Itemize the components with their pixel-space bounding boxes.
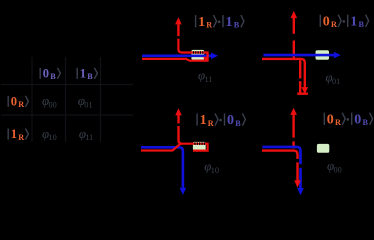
TL red input and wrap path bbox=[142, 39, 208, 61]
TR red dashed return vertical bbox=[299, 60, 301, 78]
svg-text:B: B bbox=[50, 72, 56, 81]
svg-text:0: 0 bbox=[354, 113, 361, 128]
TR red up output arrow bbox=[291, 11, 298, 18]
BL blue down output arrow bbox=[180, 188, 187, 195]
BR blue beam turning down bbox=[262, 147, 300, 164]
BL blue beam turning down bbox=[141, 147, 183, 188]
svg-text:1: 1 bbox=[200, 113, 207, 128]
BL title |1_R>.|0_B> bbox=[196, 113, 198, 125]
BR blue down output arrow bbox=[297, 188, 304, 195]
svg-text:B: B bbox=[87, 72, 93, 81]
TL title |1_R>.|1_B> bbox=[195, 15, 197, 27]
svg-text:B: B bbox=[234, 21, 240, 30]
svg-text:0: 0 bbox=[227, 113, 234, 128]
BL red up output arrow bbox=[175, 108, 182, 115]
svg-text:R: R bbox=[18, 133, 24, 142]
svg-text:B: B bbox=[363, 118, 369, 127]
TL grating ticks bbox=[193, 51, 194, 54]
svg-text:R: R bbox=[206, 21, 212, 30]
TR title |0_R>.|1_B> bbox=[319, 15, 321, 27]
BR red dashed up vertical bbox=[292, 141, 294, 148]
svg-text:00: 00 bbox=[49, 100, 57, 109]
svg-text:R: R bbox=[18, 100, 24, 109]
svg-text:1: 1 bbox=[198, 15, 205, 30]
svg-text:1: 1 bbox=[11, 127, 17, 141]
BR title |0_R>.|0_B> bbox=[323, 113, 325, 125]
TR red input turning down bbox=[262, 59, 305, 89]
TL component grating bbox=[191, 50, 204, 60]
table header ket |0_B> bbox=[39, 68, 41, 79]
TR blue output arrow bbox=[334, 52, 341, 59]
svg-text:10: 10 bbox=[211, 166, 219, 175]
TR red mirror foot bbox=[297, 92, 308, 94]
TR component bbox=[316, 50, 330, 60]
svg-text:0: 0 bbox=[11, 95, 17, 109]
table header ket |1_B> bbox=[76, 68, 78, 79]
TL red dash segment bbox=[177, 24, 179, 36]
svg-text:B: B bbox=[235, 119, 241, 128]
table grid lines bbox=[31, 57, 33, 142]
table row ket |1_R> bbox=[7, 129, 9, 140]
BR red beam turning down bbox=[262, 151, 298, 159]
BR red up output arrow bbox=[290, 108, 297, 115]
svg-text:R: R bbox=[331, 20, 337, 29]
TL blue output arrow bbox=[211, 53, 218, 60]
svg-text:R: R bbox=[335, 118, 341, 127]
BL grating ticks bbox=[194, 142, 195, 145]
BL red input crossing up and wrap bbox=[141, 144, 208, 151]
BL component grating bbox=[193, 142, 206, 150]
svg-text:R: R bbox=[208, 119, 214, 128]
svg-text:1: 1 bbox=[80, 67, 86, 81]
table row ket |0_R> bbox=[7, 96, 9, 107]
svg-text:01: 01 bbox=[84, 100, 92, 109]
svg-text:0: 0 bbox=[323, 15, 330, 30]
svg-text:1: 1 bbox=[226, 15, 233, 30]
svg-text:1: 1 bbox=[350, 15, 357, 30]
BL red vertical riser bbox=[179, 126, 182, 144]
svg-text:11: 11 bbox=[85, 133, 93, 142]
BR component bbox=[317, 144, 329, 153]
TR blue beam bbox=[263, 54, 336, 57]
svg-text:01: 01 bbox=[332, 77, 340, 86]
TL red up output arrow bbox=[175, 17, 182, 24]
svg-text:11: 11 bbox=[205, 75, 213, 84]
svg-text:B: B bbox=[359, 20, 365, 29]
TR red down arrow bbox=[302, 87, 309, 94]
svg-text:00: 00 bbox=[334, 165, 342, 174]
BR red down output arrow bbox=[294, 180, 301, 187]
svg-text:0: 0 bbox=[43, 67, 49, 81]
TL blue beam bbox=[142, 54, 213, 57]
TL red transmitted down arrow bbox=[203, 57, 209, 62]
svg-text:10: 10 bbox=[49, 133, 57, 142]
svg-text:0: 0 bbox=[327, 113, 334, 128]
TR red dashed up vertical bbox=[293, 41, 295, 59]
